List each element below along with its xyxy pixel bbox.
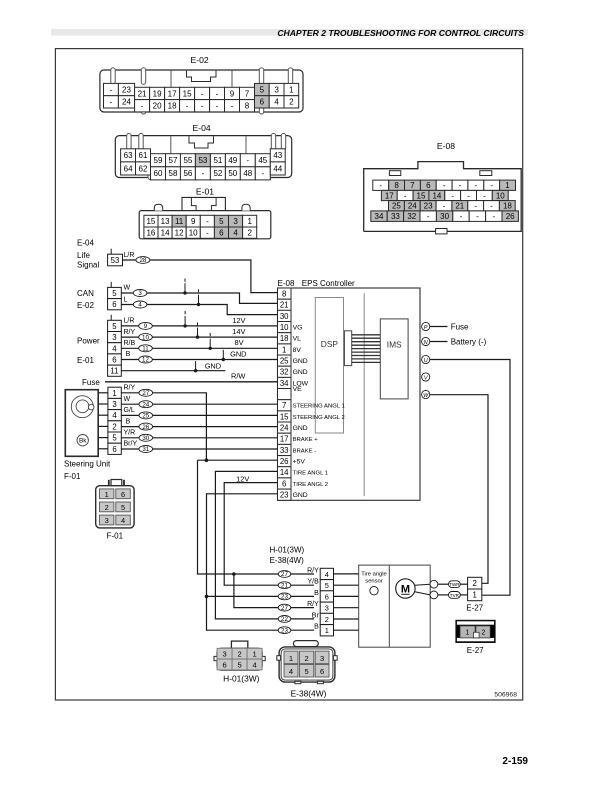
svg-text:15: 15 bbox=[183, 89, 192, 98]
svg-text:H-01(3W): H-01(3W) bbox=[270, 546, 305, 555]
svg-text:3: 3 bbox=[105, 516, 109, 525]
svg-text:Br/Y: Br/Y bbox=[124, 441, 138, 448]
svg-text:6: 6 bbox=[222, 660, 226, 669]
svg-text:GND: GND bbox=[293, 369, 308, 376]
svg-text:21: 21 bbox=[455, 202, 464, 211]
svg-text:Br: Br bbox=[312, 612, 320, 619]
DSP bus connector block bbox=[344, 331, 351, 366]
svg-text:5: 5 bbox=[325, 581, 329, 590]
svg-text:6: 6 bbox=[219, 229, 224, 238]
wire pin 11 GND stub bbox=[121, 370, 225, 372]
terminal P (Fuse) bbox=[422, 322, 430, 330]
svg-text:B: B bbox=[314, 590, 319, 597]
svg-text:3: 3 bbox=[138, 290, 142, 297]
svg-text:22: 22 bbox=[281, 616, 288, 623]
svg-text:STEERING ANGL 1: STEERING ANGL 1 bbox=[293, 404, 345, 410]
svg-text:-: - bbox=[110, 98, 113, 107]
wire G/L to pin 15 bbox=[121, 414, 277, 416]
Bk circle bbox=[77, 435, 88, 446]
connector H-01 housing bbox=[217, 648, 262, 670]
svg-text:-: - bbox=[201, 102, 204, 111]
svg-text:53: 53 bbox=[198, 156, 207, 165]
svg-text:Signal: Signal bbox=[77, 261, 99, 270]
svg-text:2: 2 bbox=[473, 579, 477, 588]
svg-text:1: 1 bbox=[289, 654, 293, 663]
IMS block bbox=[380, 319, 408, 399]
svg-text:57: 57 bbox=[169, 156, 178, 165]
svg-text:GND: GND bbox=[230, 350, 246, 359]
svg-text:3: 3 bbox=[233, 217, 238, 226]
svg-text:E-01: E-01 bbox=[77, 356, 94, 365]
wire L/R life signal to pin 8 bbox=[123, 260, 278, 293]
svg-text:4: 4 bbox=[252, 660, 256, 669]
svg-text:3: 3 bbox=[325, 604, 329, 613]
svg-text:12: 12 bbox=[175, 229, 184, 238]
svg-text:H-01(3W): H-01(3W) bbox=[223, 673, 260, 683]
connector E-04 pins right group bbox=[270, 149, 285, 162]
svg-text:27: 27 bbox=[142, 390, 149, 397]
svg-text:8: 8 bbox=[282, 290, 286, 299]
svg-text:-: - bbox=[186, 102, 189, 111]
connector E-02 pins left group bbox=[104, 83, 119, 95]
svg-text:3: 3 bbox=[320, 654, 324, 663]
twist marker CAN L bbox=[198, 289, 200, 292]
svg-text:34: 34 bbox=[280, 379, 289, 388]
svg-text:4: 4 bbox=[112, 344, 117, 353]
svg-text:-: - bbox=[476, 212, 479, 221]
svg-text:5: 5 bbox=[304, 667, 308, 676]
EPS controller internal vertical line bbox=[363, 293, 365, 496]
svg-text:E-08: E-08 bbox=[437, 141, 455, 151]
svg-text:10: 10 bbox=[496, 191, 505, 200]
svg-text:4: 4 bbox=[138, 302, 142, 309]
svg-text:26: 26 bbox=[280, 457, 289, 466]
svg-text:15: 15 bbox=[417, 191, 426, 200]
page header bar bbox=[51, 29, 528, 36]
svg-text:5: 5 bbox=[260, 85, 265, 94]
svg-text:Y/B: Y/B bbox=[308, 579, 320, 586]
svg-text:TIRE ANGL 2: TIRE ANGL 2 bbox=[293, 482, 328, 488]
svg-text:-: - bbox=[206, 217, 209, 226]
svg-text:24: 24 bbox=[280, 424, 289, 433]
svg-text:5: 5 bbox=[112, 322, 117, 331]
svg-text:5: 5 bbox=[112, 434, 117, 443]
svg-text:2: 2 bbox=[237, 650, 241, 659]
wire U phase from terminal U to E-27 pin 1 bbox=[430, 360, 510, 596]
svg-text:2: 2 bbox=[105, 503, 109, 512]
svg-text:5: 5 bbox=[121, 503, 125, 512]
connector E-38 top handle bbox=[293, 641, 318, 647]
svg-text:6: 6 bbox=[260, 98, 265, 107]
svg-text:Battery (-): Battery (-) bbox=[451, 338, 487, 347]
svg-text:2: 2 bbox=[325, 615, 329, 624]
connector E-08 pin row 2 (17,15,14,10 highlighted) bbox=[381, 190, 397, 200]
svg-text:32: 32 bbox=[280, 368, 289, 377]
svg-text:28: 28 bbox=[139, 257, 146, 264]
svg-text:R/Y: R/Y bbox=[307, 568, 319, 575]
svg-text:E-38(4W): E-38(4W) bbox=[270, 556, 305, 565]
svg-text:E-02: E-02 bbox=[191, 55, 209, 65]
svg-text:GND: GND bbox=[293, 358, 308, 365]
svg-text:56: 56 bbox=[183, 169, 192, 178]
wire TIRE ANGL 2 12V from pin 6 to sensor pin 5 bbox=[224, 483, 314, 586]
wire L (CAN low) to pin 30 bbox=[121, 305, 277, 315]
svg-text:-: - bbox=[261, 169, 264, 178]
oval 3 bbox=[133, 290, 147, 297]
svg-text:-: - bbox=[427, 212, 430, 221]
svg-text:R/W: R/W bbox=[231, 371, 245, 380]
connector E-02 housing bbox=[100, 70, 303, 112]
oval 25 bbox=[139, 412, 153, 419]
svg-text:53: 53 bbox=[111, 256, 120, 265]
terminal N (Battery) bbox=[422, 337, 430, 345]
svg-text:G/L: G/L bbox=[124, 407, 135, 414]
svg-text:26: 26 bbox=[506, 212, 515, 221]
svg-text:10: 10 bbox=[280, 323, 289, 332]
svg-text:14: 14 bbox=[161, 229, 170, 238]
svg-text:13: 13 bbox=[161, 217, 170, 226]
svg-text:59: 59 bbox=[154, 156, 163, 165]
svg-text:Fuse: Fuse bbox=[451, 323, 469, 332]
svg-text:GND: GND bbox=[205, 361, 221, 370]
svg-text:-: - bbox=[216, 102, 219, 111]
wire W phase from terminal W to E-27 pin 2 bbox=[430, 395, 488, 584]
svg-text:-: - bbox=[467, 191, 470, 200]
svg-text:BRAKE -: BRAKE - bbox=[293, 448, 317, 454]
connector E-04 top notch bbox=[189, 136, 214, 148]
svg-text:1: 1 bbox=[289, 85, 294, 94]
svg-text:11: 11 bbox=[142, 346, 149, 353]
svg-text:18: 18 bbox=[168, 102, 177, 111]
wire Br/Y to pin 33 bbox=[121, 448, 277, 450]
connector E-08 pin row 1 (8,7,6,1 highlighted) bbox=[373, 180, 389, 190]
svg-text:-: - bbox=[379, 181, 382, 190]
twist marker GND B bbox=[222, 350, 224, 360]
svg-text:12: 12 bbox=[142, 357, 149, 364]
steering unit box F-01 bbox=[65, 390, 98, 457]
svg-text:Power: Power bbox=[77, 337, 100, 346]
svg-text:11: 11 bbox=[175, 217, 184, 226]
svg-text:6: 6 bbox=[121, 490, 125, 499]
connector H-01 pins bbox=[217, 648, 232, 659]
motor terminal leads bbox=[415, 584, 430, 585]
oval 10 bbox=[139, 334, 153, 341]
svg-text:17: 17 bbox=[280, 435, 289, 444]
svg-text:8: 8 bbox=[245, 102, 250, 111]
oval 22 / wire Br at y618 bbox=[278, 616, 291, 623]
svg-text:Fuse: Fuse bbox=[82, 378, 100, 387]
connector E-01 side bumps bbox=[154, 204, 162, 210]
svg-text:24: 24 bbox=[142, 401, 149, 408]
svg-text:R/Y: R/Y bbox=[124, 329, 136, 336]
svg-text:6: 6 bbox=[112, 356, 116, 365]
svg-text:4: 4 bbox=[121, 516, 125, 525]
svg-text:24: 24 bbox=[122, 98, 131, 107]
svg-text:BRAKE +: BRAKE + bbox=[293, 437, 319, 443]
connector F-01 housing bbox=[96, 486, 134, 528]
svg-text:15: 15 bbox=[146, 217, 155, 226]
wire W steering to pin 7 bbox=[121, 403, 277, 405]
svg-text:IMS: IMS bbox=[387, 340, 402, 350]
svg-text:E-08: E-08 bbox=[278, 279, 295, 288]
svg-text:E-02: E-02 bbox=[77, 301, 94, 310]
connector E-01 housing bbox=[139, 211, 271, 239]
svg-text:W: W bbox=[124, 396, 131, 403]
svg-text:17: 17 bbox=[385, 191, 394, 200]
svg-text:TWR: TWR bbox=[449, 582, 460, 587]
connector E-38 side tabs bbox=[277, 656, 281, 661]
wire R/Y steering to +5V node bbox=[121, 393, 206, 460]
svg-text:51: 51 bbox=[213, 156, 222, 165]
svg-text:-: - bbox=[443, 181, 446, 190]
svg-text:TVR: TVR bbox=[450, 593, 460, 598]
svg-text:DSP: DSP bbox=[321, 339, 339, 349]
svg-text:EPS Controller: EPS Controller bbox=[302, 279, 355, 288]
wire motor V to TVR bbox=[438, 594, 449, 596]
wire R/Y 14V to pin 18 bbox=[121, 336, 277, 338]
steering wheel symbol bbox=[71, 396, 93, 418]
svg-text:L: L bbox=[124, 297, 128, 304]
svg-text:-: - bbox=[443, 202, 446, 211]
oval 9 bbox=[139, 322, 153, 329]
sensor circle bbox=[370, 587, 378, 595]
svg-text:3: 3 bbox=[274, 85, 279, 94]
svg-text:60: 60 bbox=[154, 169, 163, 178]
svg-text:3: 3 bbox=[112, 400, 116, 409]
connector E-02 top notch bbox=[187, 71, 217, 82]
svg-text:45: 45 bbox=[258, 156, 267, 165]
svg-text:5: 5 bbox=[237, 660, 241, 669]
svg-text:L/R: L/R bbox=[124, 252, 135, 259]
power pin boxes 5 3 4 6 11 bbox=[110, 315, 112, 321]
svg-text:2: 2 bbox=[482, 630, 486, 637]
svg-text:1: 1 bbox=[466, 630, 470, 637]
svg-text:STEERING ANGL 2: STEERING ANGL 2 bbox=[293, 415, 345, 421]
svg-text:11: 11 bbox=[110, 367, 118, 376]
svg-text:27: 27 bbox=[281, 571, 288, 578]
svg-text:50: 50 bbox=[228, 169, 237, 178]
connector H-01 top tab bbox=[231, 641, 247, 649]
oval 12 bbox=[139, 356, 153, 363]
svg-text:N: N bbox=[424, 340, 428, 346]
svg-text:E-27: E-27 bbox=[467, 646, 484, 655]
oval 11 bbox=[139, 345, 153, 352]
svg-text:2: 2 bbox=[304, 654, 308, 663]
svg-text:14: 14 bbox=[280, 468, 289, 477]
svg-text:26: 26 bbox=[142, 424, 149, 431]
connector E-02 pins middle group bbox=[135, 87, 150, 99]
svg-text:506968: 506968 bbox=[494, 692, 517, 699]
svg-text:E-38(4W): E-38(4W) bbox=[291, 689, 327, 699]
oval 31 bbox=[139, 446, 153, 453]
oval 30 bbox=[139, 434, 153, 441]
svg-text:23: 23 bbox=[122, 85, 131, 94]
svg-text:10: 10 bbox=[142, 334, 149, 341]
svg-text:F-01: F-01 bbox=[107, 532, 124, 541]
svg-text:1: 1 bbox=[112, 389, 116, 398]
svg-text:GND: GND bbox=[293, 492, 308, 499]
connector E-38 bottom tabs bbox=[295, 681, 301, 683]
terminal U bbox=[422, 355, 430, 363]
svg-text:TIRE ANGL 1: TIRE ANGL 1 bbox=[293, 471, 328, 477]
twist marker 8V bbox=[209, 333, 211, 336]
wire GND from pin 23 to sensor pins 6 and 1 bbox=[207, 494, 315, 597]
svg-text:-: - bbox=[231, 102, 234, 111]
wire TVR to E-27 pin 1 bbox=[460, 594, 467, 596]
svg-text:2: 2 bbox=[112, 422, 116, 431]
svg-text:R/Y: R/Y bbox=[307, 601, 319, 608]
svg-text:6: 6 bbox=[426, 181, 431, 190]
svg-text:-: - bbox=[474, 181, 477, 190]
svg-text:Life: Life bbox=[77, 251, 90, 260]
connector E-04 housing bbox=[115, 136, 291, 178]
svg-text:9: 9 bbox=[230, 89, 235, 98]
svg-text:B: B bbox=[126, 418, 131, 425]
oval TWR bbox=[449, 581, 461, 588]
svg-text:7: 7 bbox=[410, 181, 415, 190]
wire L/R 12V to pin 10 bbox=[121, 325, 277, 327]
svg-text:23: 23 bbox=[281, 594, 288, 601]
connector E-04 pins left group bbox=[121, 149, 136, 162]
svg-text:12V: 12V bbox=[236, 474, 249, 483]
connector E-01 pins (11,5,3,6,4 highlighted) bbox=[144, 215, 158, 227]
wire motor W to TWR bbox=[438, 583, 449, 585]
svg-text:2-159: 2-159 bbox=[502, 756, 528, 767]
svg-text:M: M bbox=[401, 583, 410, 595]
connector E-08 pin row 3 (25,24,23,21,18 highlighted) bbox=[389, 201, 405, 211]
svg-text:GND: GND bbox=[293, 425, 308, 432]
svg-text:33: 33 bbox=[280, 446, 289, 455]
svg-text:4: 4 bbox=[112, 411, 117, 420]
svg-text:48: 48 bbox=[243, 169, 252, 178]
svg-text:CAN: CAN bbox=[77, 289, 94, 298]
svg-text:2: 2 bbox=[289, 98, 294, 107]
svg-text:9: 9 bbox=[144, 323, 148, 330]
svg-text:-: - bbox=[404, 191, 407, 200]
svg-text:33: 33 bbox=[391, 212, 400, 221]
svg-text:1: 1 bbox=[505, 181, 510, 190]
wire B GND to pin 25 bbox=[121, 359, 277, 361]
connector H-01 side tabs bbox=[214, 656, 217, 660]
svg-text:8V: 8V bbox=[235, 338, 244, 347]
svg-text:1: 1 bbox=[282, 345, 286, 354]
svg-text:18: 18 bbox=[280, 334, 289, 343]
svg-text:E-01: E-01 bbox=[196, 187, 214, 197]
svg-text:R/Y: R/Y bbox=[124, 385, 136, 392]
wire W (CAN high) to pin 21 bbox=[121, 293, 277, 303]
svg-text:30: 30 bbox=[142, 435, 149, 442]
svg-text:23: 23 bbox=[281, 627, 288, 634]
svg-text:16: 16 bbox=[146, 229, 155, 238]
oval 23 / wire B at y596 bbox=[278, 593, 291, 600]
connector E-01 top center tab bbox=[182, 197, 225, 210]
terminal V bbox=[422, 373, 430, 381]
svg-text:6: 6 bbox=[282, 479, 286, 488]
svg-text:1: 1 bbox=[247, 217, 252, 226]
svg-text:1: 1 bbox=[325, 626, 329, 635]
svg-text:-: - bbox=[460, 212, 463, 221]
svg-text:B: B bbox=[126, 351, 131, 358]
svg-text:4: 4 bbox=[274, 98, 279, 107]
svg-text:E-04: E-04 bbox=[77, 239, 94, 248]
svg-text:6: 6 bbox=[112, 300, 116, 309]
svg-text:21: 21 bbox=[280, 301, 289, 310]
svg-text:VL: VL bbox=[293, 336, 302, 343]
svg-text:-: - bbox=[206, 229, 209, 238]
svg-text:14: 14 bbox=[432, 191, 441, 200]
svg-text:21: 21 bbox=[281, 582, 288, 589]
svg-text:19: 19 bbox=[153, 89, 162, 98]
oval TVR bbox=[449, 592, 461, 599]
svg-text:-: - bbox=[216, 89, 219, 98]
twist marker GND 11 bbox=[195, 361, 197, 371]
DSP block bbox=[315, 298, 343, 434]
svg-text:25: 25 bbox=[142, 413, 149, 420]
svg-text:24: 24 bbox=[408, 202, 417, 211]
svg-text:Steering Unit: Steering Unit bbox=[64, 460, 111, 469]
svg-text:18: 18 bbox=[503, 202, 512, 211]
svg-text:4: 4 bbox=[325, 570, 329, 579]
svg-text:4: 4 bbox=[233, 229, 238, 238]
svg-text:-: - bbox=[141, 102, 144, 111]
svg-text:U: U bbox=[424, 358, 428, 364]
svg-text:8V: 8V bbox=[293, 347, 302, 354]
svg-text:5: 5 bbox=[112, 289, 117, 298]
pin box 53 (E-04) bbox=[110, 249, 112, 255]
svg-text:+5V: +5V bbox=[293, 459, 306, 466]
wire TIRE ANGL 1 from pin 14 to sensor pin 2 bbox=[215, 471, 314, 619]
svg-text:-: - bbox=[110, 85, 113, 94]
connector E-02 pins right group (5,6 highlighted) bbox=[255, 83, 270, 95]
CAN pin boxes 5 6 bbox=[110, 282, 112, 288]
svg-text:43: 43 bbox=[273, 151, 282, 160]
svg-text:58: 58 bbox=[169, 169, 178, 178]
wire TWR to E-27 pin 2 bbox=[460, 583, 467, 585]
svg-text:1: 1 bbox=[105, 490, 109, 499]
connector E-08 housing bbox=[364, 162, 522, 232]
svg-text:64: 64 bbox=[124, 164, 133, 173]
svg-text:R/B: R/B bbox=[124, 340, 136, 347]
wire R/W fuse to pin 34 bbox=[105, 381, 278, 383]
svg-text:31: 31 bbox=[142, 446, 149, 453]
svg-text:6: 6 bbox=[320, 667, 324, 676]
svg-text:61: 61 bbox=[139, 151, 148, 160]
svg-text:2: 2 bbox=[247, 229, 252, 238]
oval 27 steering bbox=[139, 389, 153, 396]
connector E-27 drawing bbox=[456, 620, 495, 642]
svg-text:4: 4 bbox=[289, 667, 293, 676]
twist marker CAN W bbox=[184, 279, 186, 282]
svg-text:32: 32 bbox=[407, 212, 416, 221]
connector E-38 housing bbox=[279, 647, 335, 682]
svg-text:23: 23 bbox=[424, 202, 433, 211]
svg-text:27: 27 bbox=[281, 605, 288, 612]
svg-text:6: 6 bbox=[325, 592, 329, 601]
twist marker 14V bbox=[197, 323, 199, 326]
wire R/B 8V to pin 1 bbox=[121, 347, 277, 349]
oval 4 bbox=[133, 301, 147, 308]
svg-text:sensor: sensor bbox=[365, 579, 382, 585]
connector F-01 pins bbox=[100, 489, 114, 499]
svg-text:W: W bbox=[124, 285, 131, 292]
svg-text:E-27: E-27 bbox=[466, 603, 483, 612]
svg-text:F-01: F-01 bbox=[64, 472, 81, 481]
svg-text:9: 9 bbox=[191, 217, 196, 226]
wire Y/R to pin 17 bbox=[121, 437, 277, 439]
wire +5V net from pin 26 to sensor pins 4 and 3 bbox=[198, 459, 278, 461]
svg-text:E-04: E-04 bbox=[193, 123, 211, 133]
svg-text:1: 1 bbox=[473, 591, 477, 600]
